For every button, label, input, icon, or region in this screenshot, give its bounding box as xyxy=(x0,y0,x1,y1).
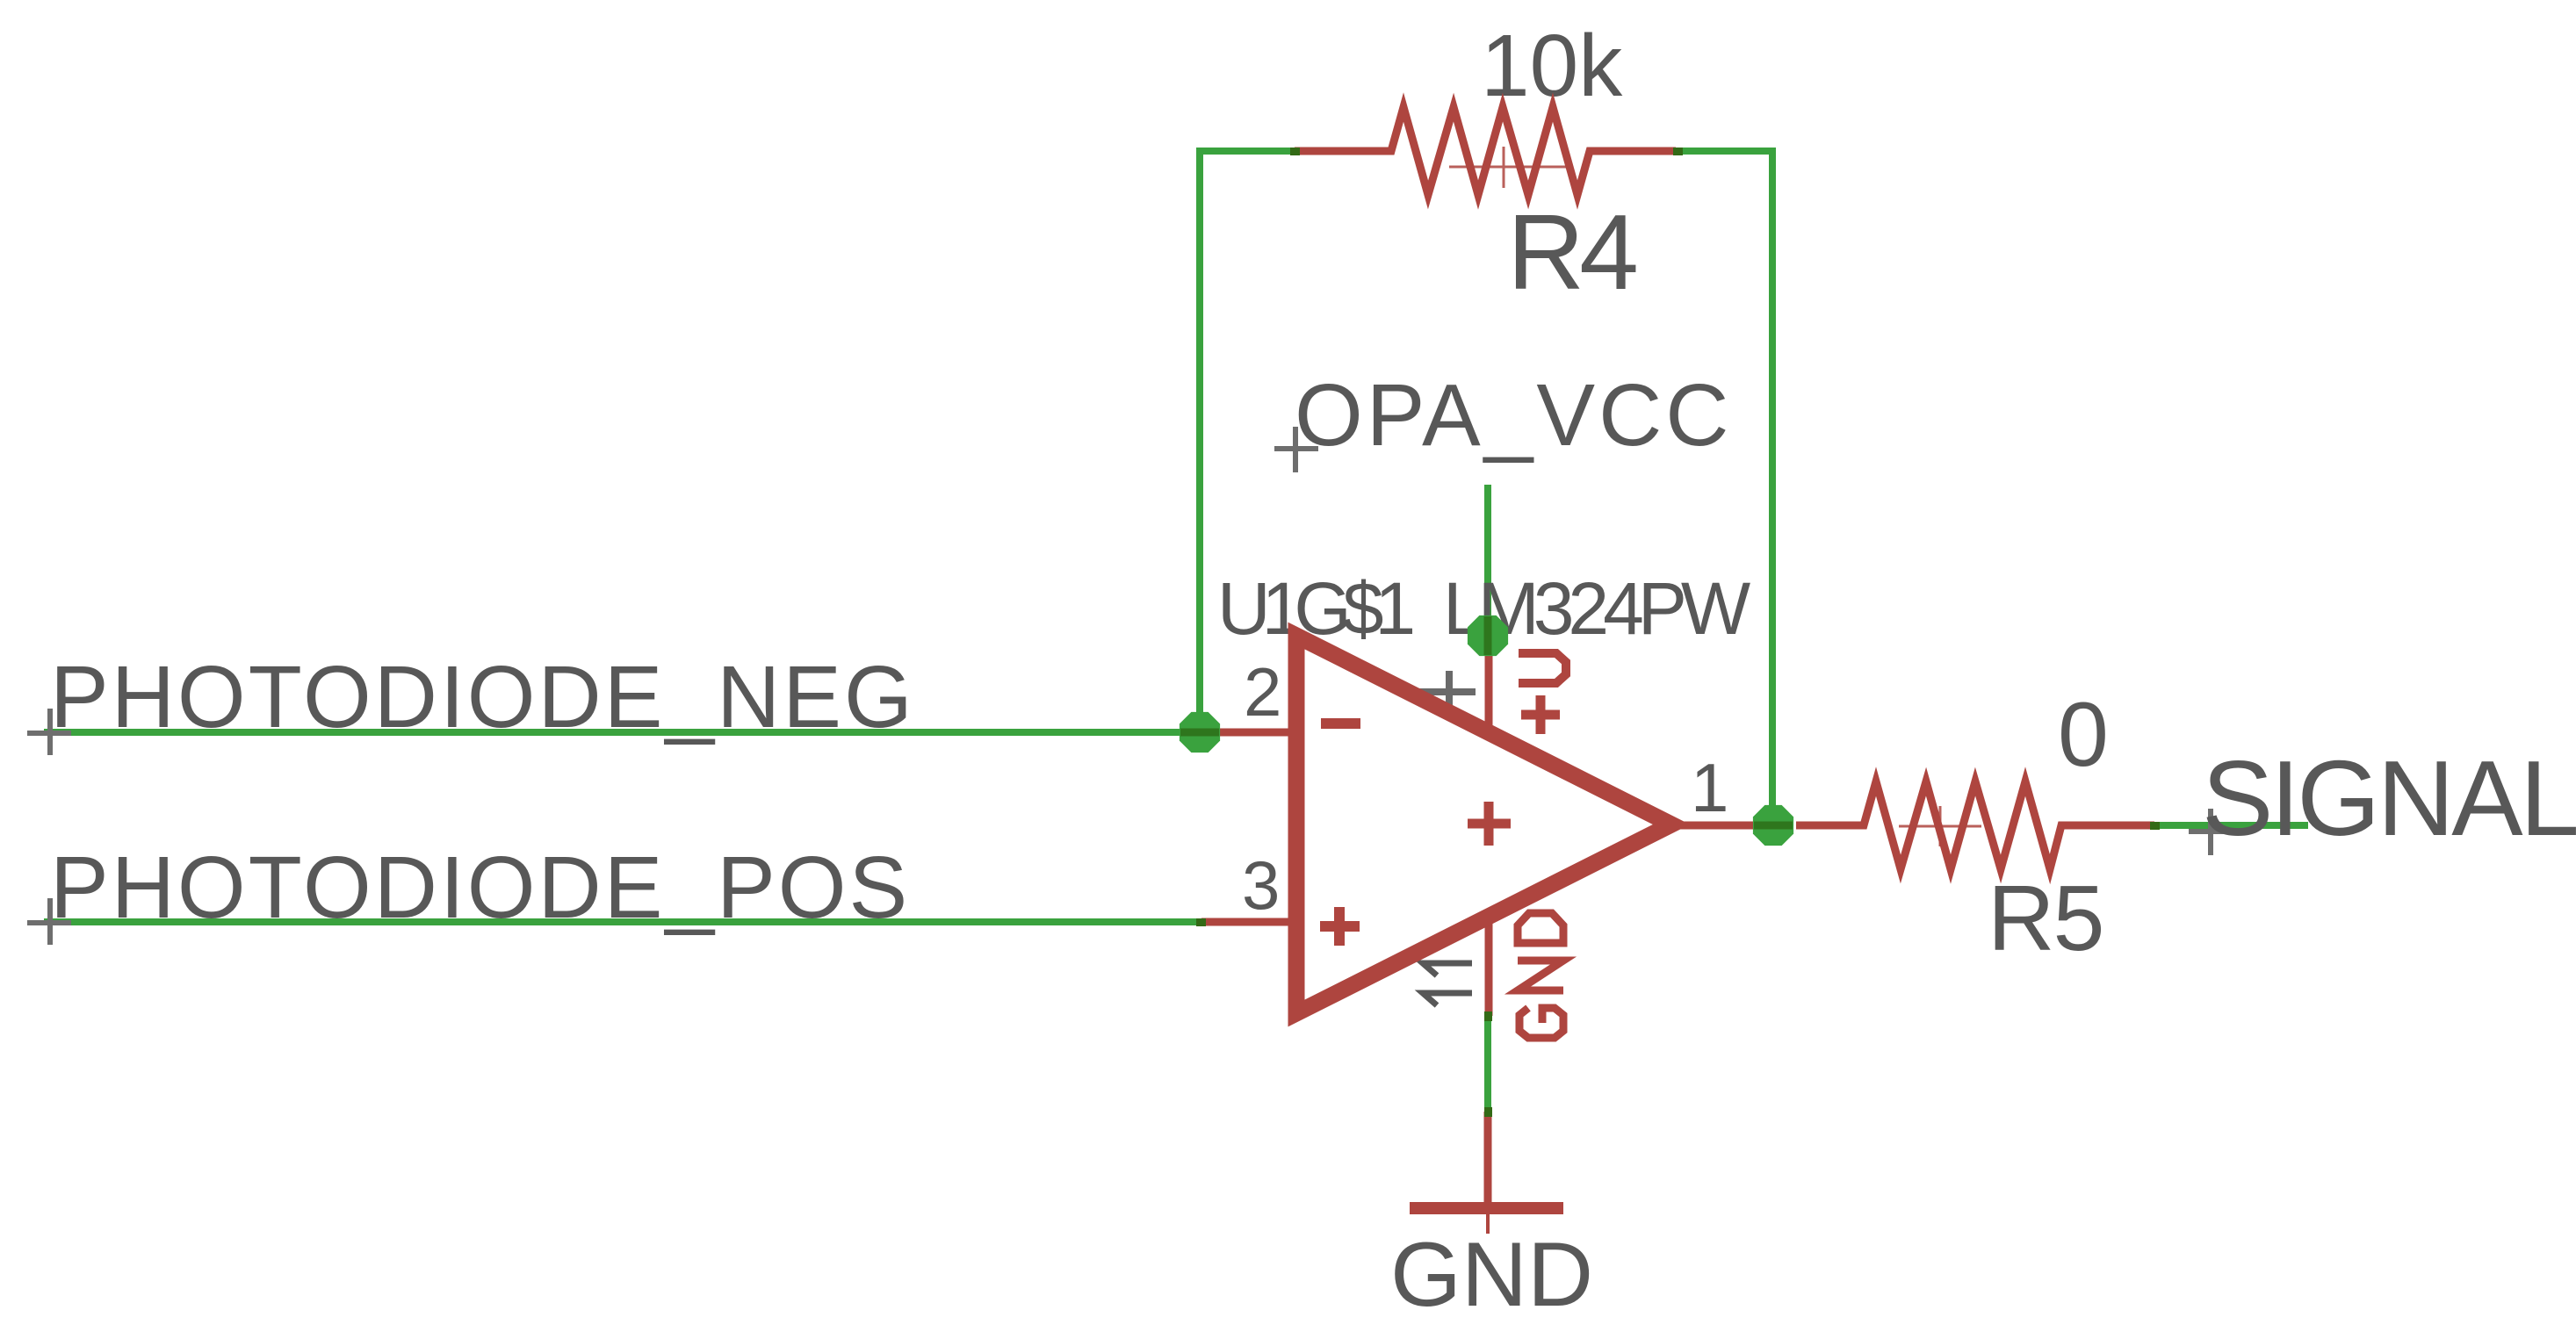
wire PHOTODIODE_NEG horizontal xyxy=(44,729,1200,736)
pin name +U : U part (rotated, vector style) xyxy=(1519,653,1566,683)
svg-text:2: 2 xyxy=(1244,653,1281,731)
resistor R5 zigzag xyxy=(1796,781,2154,869)
op-amp plus sign (non-inverting input) xyxy=(1320,907,1360,946)
svg-text:R5: R5 xyxy=(1988,867,2103,970)
pin number 11 (rotated, vector style) xyxy=(1423,963,1472,1005)
wire SIGNAL xyxy=(2154,822,2308,829)
op-amp pin 4 (+U) lead xyxy=(1485,636,1493,731)
junction dot at inverting input / feedback xyxy=(1180,712,1220,752)
svg-text:3: 3 xyxy=(1242,846,1280,924)
svg-text:OPA_VCC: OPA_VCC xyxy=(1295,366,1733,464)
wire feedback loop left vertical + top to R4 left lead xyxy=(1200,151,1298,736)
junction dot at +U supply xyxy=(1468,616,1508,656)
ground symbol GND xyxy=(1410,1112,1563,1234)
op-amp pin 3 lead xyxy=(1201,918,1296,926)
wire R4 right lead to right vertical down to output junction xyxy=(1676,151,1772,825)
op-amp minus sign (inverting input) xyxy=(1321,718,1360,729)
svg-text:R4: R4 xyxy=(1507,192,1636,312)
svg-text:GND: GND xyxy=(1390,1224,1593,1326)
wire PHOTODIODE_POS horizontal xyxy=(44,918,1201,925)
op-amp pin 2 lead xyxy=(1200,729,1296,737)
pin name +U : plus part xyxy=(1521,695,1560,734)
pin name GND (rotated, vector style) xyxy=(1518,913,1563,1038)
svg-text:0: 0 xyxy=(2058,684,2109,786)
wire GND stub xyxy=(1484,1016,1491,1112)
op-amp gate origin cross xyxy=(1418,671,1476,711)
op-amp U1G$1 triangle xyxy=(1296,636,1671,1013)
resistor R4 origin cross xyxy=(1449,147,1567,188)
node cross OPA_VCC label origin xyxy=(1274,427,1318,472)
node cross PHOTODIODE_POS end xyxy=(27,898,71,945)
svg-text:PHOTODIODE_NEG: PHOTODIODE_NEG xyxy=(50,648,915,746)
op-amp pin 1 output lead xyxy=(1671,822,1773,830)
junction dot at output node xyxy=(1753,805,1793,846)
wire OPA_VCC stub xyxy=(1484,485,1491,636)
op-amp pin 11 (GND) lead xyxy=(1485,911,1493,1016)
svg-text:SIGNAL: SIGNAL xyxy=(2202,738,2576,858)
resistor R5 origin cross xyxy=(1899,806,1981,846)
wire junction blend marks (green/red overlaps) xyxy=(1196,148,2160,1117)
node cross PHOTODIODE_NEG end xyxy=(27,709,71,755)
svg-text:PHOTODIODE_POS: PHOTODIODE_POS xyxy=(50,839,910,937)
node cross SIGNAL label origin xyxy=(2189,809,2233,855)
svg-text:1: 1 xyxy=(1691,749,1728,826)
resistor R4 zigzag xyxy=(1295,107,1676,195)
op-amp center plus sign (origin) xyxy=(1468,802,1511,846)
